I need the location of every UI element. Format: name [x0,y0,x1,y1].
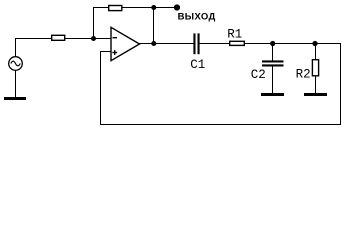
wire R2 top [315,43,316,59]
node D (C2 junction) [270,41,275,46]
node A (inverting input junction) [91,36,96,41]
wire loop bottom rail [100,124,341,125]
wire C1 to right [200,43,341,44]
capacitor C1 [193,33,199,54]
wire +input [100,51,111,52]
node E (R2 junction) [312,41,317,46]
wire feedback left vertical [93,7,94,38]
node B (top junction) [151,5,156,10]
resistor R2 [312,60,318,76]
svg-text:ВЫХОД: ВЫХОД [178,12,216,23]
wire loop right vertical [340,43,341,125]
ground (C2) [261,93,284,96]
wire loop left vertical [100,51,101,125]
wire top rail [93,7,177,8]
svg-text:C1: C1 [190,58,205,72]
wire C2 bottom [272,67,273,94]
resistor R1 [230,41,245,45]
resistor (feedback) [109,6,122,11]
wire input horizontal [15,38,111,39]
svg-text:R2: R2 [296,68,311,82]
terminal dot (output) [174,4,180,10]
capacitor C2 [262,60,284,66]
op-amp U1 [111,27,140,60]
svg-text:C2: C2 [251,68,266,82]
wire C2 top [272,43,273,61]
ground (source) [4,97,26,100]
wire output vertical [153,7,154,44]
sine source V1 [9,57,23,71]
node C (output junction) [151,41,156,46]
svg-text:R1: R1 [227,28,242,42]
wire source top [15,38,16,57]
wire output to C1 [138,43,194,44]
wire R2 bottom [315,76,316,93]
resistor (input) [52,35,65,40]
wire source bottom [15,70,16,98]
ground (R2) [304,93,327,96]
